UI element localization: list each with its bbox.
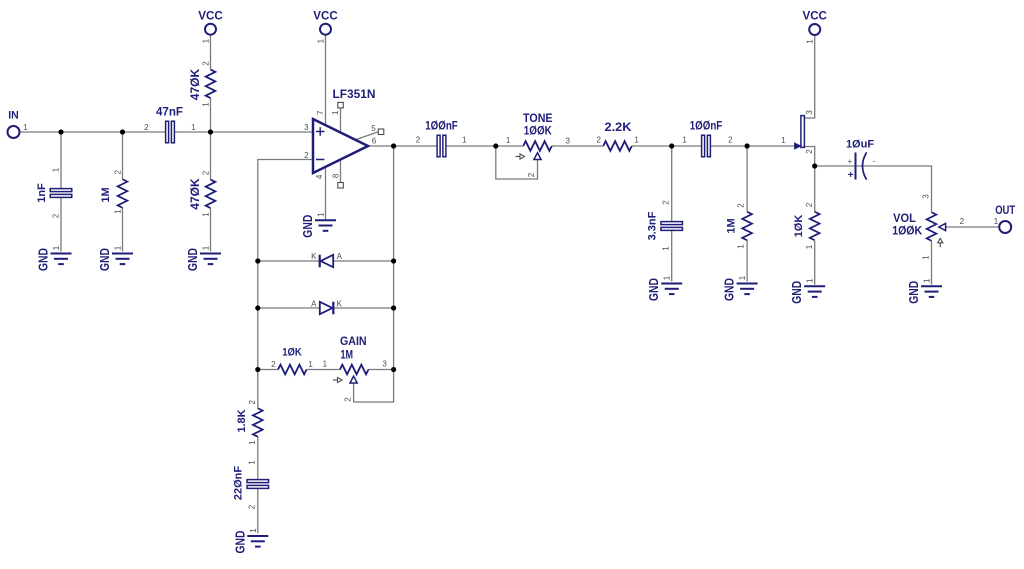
wire C6 to JFET gate bbox=[710, 145, 800, 147]
wire VOL wiper to OUT bbox=[946, 226, 999, 228]
wire R5 to C6 bbox=[632, 145, 702, 147]
adjust arrow GAIN bbox=[333, 377, 342, 382]
wire R2 to GND bbox=[122, 208, 124, 252]
svg-text:2: 2 bbox=[416, 136, 421, 145]
wiper GAIN bbox=[350, 376, 357, 383]
svg-text:1: 1 bbox=[202, 245, 211, 250]
wire VCC to op-amp pin7 bbox=[325, 35, 327, 126]
resistor 470K (upper) bbox=[189, 61, 216, 107]
resistor 470K (lower) bbox=[189, 170, 216, 217]
svg-text:1: 1 bbox=[248, 460, 257, 465]
svg-text:1ØØK: 1ØØK bbox=[524, 126, 553, 138]
capacitor 3.3nF bbox=[647, 200, 683, 251]
svg-text:1: 1 bbox=[738, 275, 747, 280]
terminal IN bbox=[8, 110, 29, 139]
svg-text:3: 3 bbox=[382, 360, 387, 369]
wire JFET source down bbox=[805, 147, 815, 167]
wire VOL to GND bbox=[931, 241, 933, 285]
svg-text:5: 5 bbox=[371, 124, 376, 133]
svg-text:1: 1 bbox=[113, 209, 122, 214]
svg-text:VCC: VCC bbox=[803, 9, 828, 23]
svg-text:1ØØnF: 1ØØnF bbox=[425, 121, 458, 133]
junction (op-amp out) bbox=[391, 143, 396, 148]
wire R3 to GND bbox=[210, 208, 212, 251]
svg-text:1: 1 bbox=[191, 123, 196, 132]
capacitor 47nF bbox=[144, 107, 196, 143]
svg-text:1: 1 bbox=[994, 217, 999, 226]
wire GAIN pin3 to column bbox=[368, 369, 394, 371]
svg-text:2: 2 bbox=[805, 149, 814, 154]
adjust arrow VOL bbox=[938, 238, 943, 247]
svg-text:VOL: VOL bbox=[893, 213, 916, 225]
svg-text:OUT: OUT bbox=[995, 205, 1015, 217]
svg-text:-: - bbox=[873, 156, 876, 165]
ground (1M second) bbox=[723, 275, 758, 301]
svg-text:8: 8 bbox=[331, 173, 340, 178]
svg-text:A: A bbox=[337, 252, 343, 261]
ground (1nF) bbox=[37, 245, 72, 271]
svg-text:1: 1 bbox=[323, 360, 328, 369]
svg-text:1M: 1M bbox=[341, 350, 354, 362]
resistor 2.2K bbox=[596, 122, 639, 151]
wire R1 to node bbox=[210, 98, 212, 132]
svg-text:4: 4 bbox=[315, 174, 324, 179]
svg-text:VCC: VCC bbox=[198, 8, 223, 22]
transistor JFET Q1 bbox=[781, 110, 814, 154]
svg-text:1: 1 bbox=[806, 39, 815, 44]
svg-text:1: 1 bbox=[201, 212, 210, 217]
ground (3.3nF) bbox=[647, 275, 682, 301]
svg-text:2.2K: 2.2K bbox=[605, 122, 633, 134]
svg-text:2: 2 bbox=[527, 172, 536, 177]
junction (JFET source) bbox=[812, 163, 817, 168]
svg-text:2: 2 bbox=[344, 397, 353, 402]
svg-text:47ØK: 47ØK bbox=[189, 68, 202, 100]
capacitor 1nF bbox=[36, 167, 72, 218]
potentiometer VOL 100K bbox=[892, 194, 964, 260]
svg-text:1ØK: 1ØK bbox=[793, 215, 805, 238]
wire output feedback column bbox=[393, 146, 395, 370]
svg-text:2: 2 bbox=[728, 136, 733, 145]
resistor 1.8K bbox=[236, 400, 263, 445]
svg-text:2: 2 bbox=[52, 213, 61, 218]
wire node to C1 top bbox=[60, 132, 62, 189]
wire GAIN wiper loop bbox=[354, 370, 394, 403]
svg-text:1ØuF: 1ØuF bbox=[846, 139, 874, 151]
svg-text:GND: GND bbox=[790, 281, 804, 304]
wire TONE wiper loop bbox=[496, 146, 538, 179]
svg-text:2: 2 bbox=[304, 151, 309, 160]
svg-text:2: 2 bbox=[737, 203, 746, 208]
svg-text:1: 1 bbox=[52, 167, 61, 172]
wire diode D2 row bbox=[258, 307, 394, 309]
svg-text:1: 1 bbox=[308, 360, 313, 369]
wire node to R7 bbox=[814, 166, 816, 212]
wire node to R3 bbox=[210, 132, 212, 180]
junction (3.3nF) bbox=[669, 143, 674, 148]
junction D1 left bbox=[255, 258, 260, 263]
svg-text:1: 1 bbox=[248, 440, 257, 445]
wire op-amp pin4 to GND bbox=[325, 167, 327, 220]
svg-text:47ØK: 47ØK bbox=[189, 178, 202, 210]
wire op-amp pin1 stub bbox=[340, 108, 342, 131]
svg-text:1ØK: 1ØK bbox=[282, 346, 302, 358]
svg-text:1: 1 bbox=[201, 102, 210, 107]
wiper VOL bbox=[939, 223, 946, 230]
svg-text:1: 1 bbox=[114, 245, 123, 250]
svg-text:6: 6 bbox=[372, 137, 377, 146]
svg-text:47nF: 47nF bbox=[156, 107, 183, 119]
svg-text:+: + bbox=[848, 170, 854, 181]
svg-text:GND: GND bbox=[907, 281, 921, 304]
wire source node through C8 to VOL pin3 bbox=[815, 166, 932, 212]
op-amp LF351N bbox=[304, 87, 384, 188]
svg-text:2: 2 bbox=[596, 136, 601, 145]
wire node to R6 bbox=[746, 146, 748, 212]
svg-text:1: 1 bbox=[923, 278, 932, 283]
adjust arrow TONE bbox=[516, 154, 525, 159]
svg-text:1.8K: 1.8K bbox=[236, 409, 248, 432]
svg-text:1: 1 bbox=[682, 136, 687, 145]
svg-text:+: + bbox=[847, 157, 852, 166]
junction gain row right bbox=[391, 367, 396, 372]
svg-text:1: 1 bbox=[922, 255, 931, 260]
svg-text:2: 2 bbox=[248, 400, 257, 405]
wire C1 to GND bbox=[60, 197, 62, 251]
capacitor 100nF (first) bbox=[416, 121, 467, 157]
svg-text:22ØnF: 22ØnF bbox=[233, 466, 245, 501]
svg-text:GND: GND bbox=[647, 278, 661, 301]
wire R9 to C9 bbox=[257, 437, 259, 480]
svg-text:1: 1 bbox=[23, 123, 28, 132]
ground (op-amp) bbox=[301, 212, 336, 238]
svg-text:1: 1 bbox=[317, 212, 326, 217]
svg-text:1: 1 bbox=[781, 136, 786, 145]
wire R6 to GND bbox=[746, 240, 748, 281]
capacitor 220nF bbox=[233, 460, 269, 510]
svg-text:A: A bbox=[311, 300, 317, 309]
ground (220nF) bbox=[233, 528, 268, 554]
wire node to C7 bbox=[671, 146, 673, 222]
power VCC (JFET) bbox=[803, 9, 828, 44]
svg-text:K: K bbox=[311, 252, 317, 261]
wire op-amp pin5 stub bbox=[356, 132, 379, 140]
wire VCC to R1 bbox=[210, 35, 212, 70]
svg-text:1: 1 bbox=[662, 246, 671, 251]
svg-text:TONE: TONE bbox=[523, 113, 553, 125]
svg-text:2: 2 bbox=[113, 170, 122, 175]
wire R8 to GAIN bbox=[307, 369, 341, 371]
svg-text:2: 2 bbox=[662, 200, 671, 205]
wire node to R2 top bbox=[122, 132, 124, 179]
svg-text:1: 1 bbox=[202, 38, 211, 43]
ground (470K) bbox=[186, 245, 221, 271]
ground (VOL) bbox=[907, 278, 942, 304]
ground (10K) bbox=[790, 278, 825, 304]
svg-text:GND: GND bbox=[233, 531, 247, 554]
svg-text:GND: GND bbox=[98, 248, 112, 271]
junction (TONE) bbox=[493, 143, 498, 148]
wire TONE to R5 bbox=[552, 145, 603, 147]
wire op-amp pin8 stub bbox=[340, 161, 342, 183]
svg-text:2: 2 bbox=[248, 504, 257, 509]
potentiometer GAIN 1M bbox=[323, 336, 388, 375]
svg-text:2: 2 bbox=[201, 170, 210, 175]
svg-text:1: 1 bbox=[806, 278, 815, 283]
svg-text:1M: 1M bbox=[100, 187, 112, 202]
svg-text:1: 1 bbox=[634, 136, 639, 145]
svg-text:3: 3 bbox=[565, 137, 570, 146]
svg-text:2: 2 bbox=[201, 61, 210, 66]
potentiometer TONE 100K bbox=[506, 136, 571, 151]
resistor 10K (output) bbox=[793, 202, 820, 249]
svg-text:1: 1 bbox=[663, 275, 672, 280]
svg-text:GND: GND bbox=[186, 248, 200, 271]
wire C5 to TONE bbox=[446, 145, 523, 147]
junction (470K) bbox=[208, 129, 213, 134]
resistor 1M bbox=[100, 170, 128, 214]
svg-text:1: 1 bbox=[737, 244, 746, 249]
junction D1 right bbox=[391, 258, 396, 263]
svg-text:3.3nF: 3.3nF bbox=[647, 211, 659, 240]
wire diode D1 row bbox=[258, 260, 394, 262]
svg-text:1: 1 bbox=[52, 245, 61, 250]
resistor 1M (second) bbox=[726, 203, 752, 249]
svg-text:1ØØnF: 1ØØnF bbox=[690, 121, 723, 133]
wire node to R8 bbox=[258, 369, 278, 371]
svg-text:LF351N: LF351N bbox=[333, 87, 376, 101]
capacitor 100nF (second) bbox=[682, 121, 733, 157]
svg-text:GND: GND bbox=[301, 215, 315, 238]
svg-text:1: 1 bbox=[249, 528, 258, 533]
svg-text:3: 3 bbox=[922, 194, 931, 199]
diode D2 (points right) bbox=[311, 300, 343, 315]
ground (1M) bbox=[98, 245, 133, 271]
svg-text:1M: 1M bbox=[726, 218, 738, 233]
terminal OUT bbox=[994, 205, 1015, 233]
wire JFET drain to VCC bbox=[805, 36, 815, 118]
svg-text:GAIN: GAIN bbox=[340, 336, 367, 348]
svg-text:2: 2 bbox=[960, 217, 965, 226]
junction D2 right bbox=[391, 305, 396, 310]
svg-text:1ØØK: 1ØØK bbox=[892, 225, 923, 237]
svg-text:7: 7 bbox=[316, 110, 325, 115]
wire IN to C2 bbox=[20, 131, 166, 133]
capacitor 10uF (electrolytic) bbox=[846, 139, 876, 181]
wiper TONE bbox=[534, 153, 541, 160]
junction gain row left bbox=[255, 367, 260, 372]
svg-text:K: K bbox=[337, 300, 343, 309]
svg-text:1: 1 bbox=[331, 110, 340, 115]
wire op-amp pin2 feedback column bbox=[258, 160, 313, 409]
wire C9 to GND bbox=[257, 488, 259, 533]
wire op-amp out to C5 bbox=[368, 145, 437, 147]
power VCC (op-amp) bbox=[313, 8, 338, 43]
wire R7 to GND bbox=[814, 241, 816, 285]
junction (1M) bbox=[120, 129, 125, 134]
svg-text:3: 3 bbox=[805, 110, 814, 115]
junction (1nF) bbox=[58, 129, 63, 134]
svg-text:1nF: 1nF bbox=[36, 183, 48, 203]
svg-text:1: 1 bbox=[462, 136, 467, 145]
svg-text:3: 3 bbox=[304, 123, 309, 132]
wire C2 to op-amp pin3 bbox=[174, 131, 313, 133]
svg-text:2: 2 bbox=[144, 123, 149, 132]
svg-text:2: 2 bbox=[271, 360, 276, 369]
svg-text:1: 1 bbox=[506, 136, 511, 145]
power VCC (R1) bbox=[198, 8, 223, 43]
resistor 10K (feedback) bbox=[271, 346, 313, 374]
svg-text:2: 2 bbox=[805, 202, 814, 207]
diode D1 (points left) bbox=[311, 252, 343, 267]
svg-text:GND: GND bbox=[723, 278, 737, 301]
svg-text:1: 1 bbox=[317, 38, 326, 43]
svg-text:IN: IN bbox=[8, 110, 19, 122]
wire C7 to GND bbox=[671, 230, 673, 281]
svg-text:VCC: VCC bbox=[313, 8, 338, 22]
junction D2 left bbox=[255, 305, 260, 310]
svg-text:1: 1 bbox=[805, 244, 814, 249]
svg-text:GND: GND bbox=[37, 248, 51, 271]
junction (100nF/1M) bbox=[745, 143, 750, 148]
